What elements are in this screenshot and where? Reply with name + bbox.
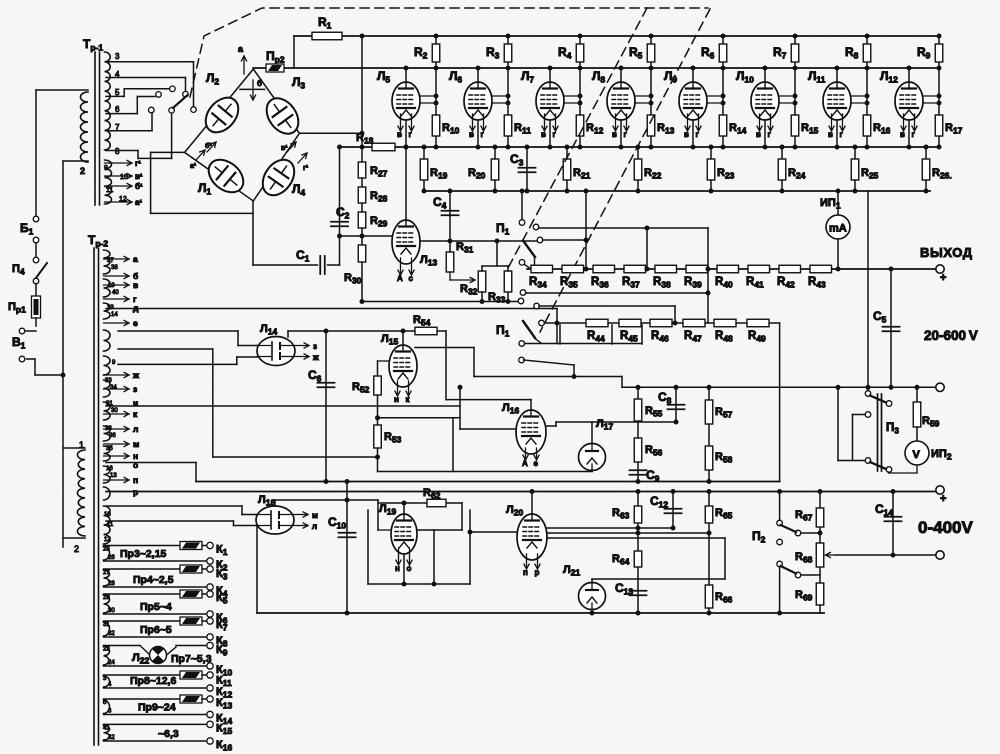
svg-text:л: л [312,522,317,531]
svg-text:38: 38 [111,265,118,271]
svg-text:А: А [397,274,403,283]
svg-text:32: 32 [108,631,115,637]
svg-text:19: 19 [108,283,115,289]
svg-text:з: з [133,384,137,394]
svg-text:6: 6 [115,105,120,114]
svg-text:н: н [395,564,400,573]
svg-text:ВЫХОД: ВЫХОД [920,245,973,260]
svg-text:а¹: а¹ [135,198,142,207]
svg-text:36: 36 [109,433,116,439]
svg-text:14: 14 [111,312,118,318]
svg-text:Пр4~2,5: Пр4~2,5 [133,574,174,586]
svg-text:29: 29 [103,595,110,601]
svg-text:в: в [756,130,761,139]
svg-text:с: с [409,274,414,283]
svg-text:12: 12 [119,196,127,203]
svg-text:Пр6~5: Пр6~5 [140,624,172,636]
svg-text:в¹: в¹ [281,145,288,152]
svg-text:10: 10 [104,512,111,518]
svg-text:7: 7 [115,123,120,132]
svg-text:о: о [133,460,138,470]
svg-text:б¹: б¹ [205,142,212,150]
svg-text:11: 11 [107,522,114,528]
svg-text:б¹: б¹ [135,182,143,191]
svg-text:23: 23 [103,647,110,653]
svg-text:з: з [313,342,317,351]
svg-text:а¹: а¹ [190,163,197,170]
svg-text:в: в [133,280,138,290]
svg-text:10: 10 [120,174,128,181]
svg-text:в: в [541,130,546,139]
svg-text:м: м [312,511,318,520]
svg-text:mA: mA [829,223,847,235]
svg-text:41: 41 [103,725,110,731]
svg-text:20-600 V: 20-600 V [924,328,978,343]
svg-text:в: в [828,130,833,139]
svg-text:+: + [940,272,946,284]
svg-text:ж: ж [312,353,319,362]
svg-text:40: 40 [112,290,119,296]
svg-text:ж: ж [132,370,140,380]
svg-text:к: к [133,409,138,419]
svg-text:б: б [257,79,262,88]
svg-text:+: + [940,493,946,505]
svg-text:г¹: г¹ [135,159,141,168]
svg-text:26: 26 [108,555,115,561]
svg-text:3: 3 [115,52,120,61]
svg-text:п: п [523,568,528,577]
svg-text:4: 4 [115,70,120,79]
svg-text:2: 2 [80,166,85,176]
svg-text:11: 11 [106,187,113,194]
svg-text:30: 30 [108,608,115,614]
svg-text:в: в [469,130,474,139]
svg-text:в: в [397,130,402,139]
svg-text:9: 9 [104,165,108,172]
svg-text:е: е [133,318,138,328]
svg-text:12: 12 [104,537,111,543]
svg-text:35: 35 [106,446,113,452]
svg-text:Пр3~2,15: Пр3~2,15 [120,548,167,560]
svg-text:16: 16 [106,466,113,472]
svg-text:м: м [133,439,139,449]
svg-text:42: 42 [108,735,115,741]
svg-text:Пр9~24: Пр9~24 [138,702,176,714]
svg-text:Пр7~5,3: Пр7~5,3 [171,653,212,665]
svg-text:о: о [407,564,412,573]
svg-text:г¹: г¹ [303,165,309,172]
svg-text:8: 8 [115,147,120,156]
svg-text:2: 2 [74,544,79,554]
svg-text:в¹: в¹ [135,172,143,181]
svg-text:в: в [684,130,689,139]
svg-text:5: 5 [115,88,120,97]
svg-text:34: 34 [110,385,117,391]
svg-text:13: 13 [110,473,117,479]
svg-text:Пр8~12,6: Пр8~12,6 [130,675,177,687]
svg-text:Пр5~4: Пр5~4 [140,601,172,613]
svg-text:и: и [394,395,399,404]
svg-text:е: е [534,459,539,468]
svg-text:А: А [522,459,528,468]
svg-text:р: р [535,568,540,577]
svg-text:а: а [133,254,138,264]
svg-text:23: 23 [103,547,110,553]
svg-text:в: в [900,130,905,139]
svg-text:27: 27 [103,570,110,576]
svg-text:24: 24 [108,660,115,666]
svg-text:31: 31 [103,622,110,628]
svg-text:28: 28 [108,581,115,587]
svg-text:V: V [913,449,921,461]
svg-text:33: 33 [105,378,112,384]
svg-text:33: 33 [105,426,112,432]
svg-text:30: 30 [111,408,118,414]
svg-text:37: 37 [107,258,114,264]
svg-text:~6,3: ~6,3 [158,728,179,740]
svg-text:0-400V: 0-400V [918,518,973,537]
svg-text:л: л [133,424,138,434]
svg-text:п: п [133,475,138,485]
svg-text:в: в [612,130,617,139]
